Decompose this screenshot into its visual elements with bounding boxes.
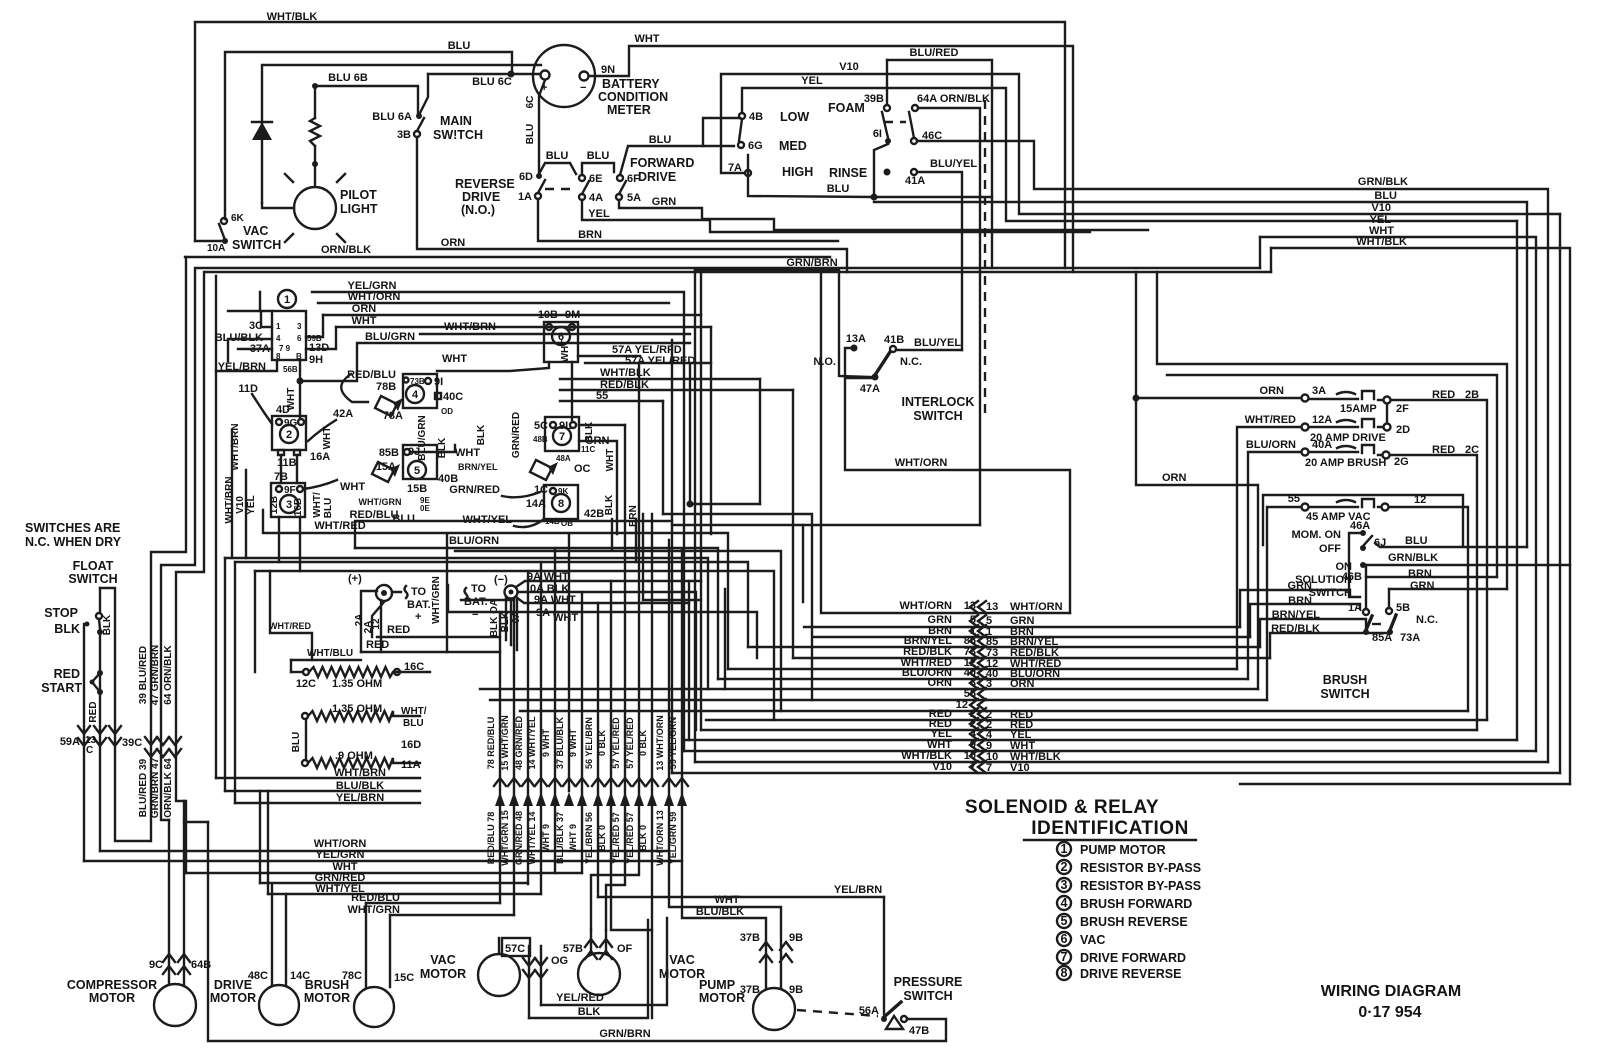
svg-text:13 WHT/ORN: 13 WHT/ORN <box>655 715 665 771</box>
svg-text:5: 5 <box>414 465 420 477</box>
wire WHT down from relay1 <box>299 360 301 419</box>
svg-text:ORN/BLK: ORN/BLK <box>321 244 371 256</box>
svg-text:MOTOR: MOTOR <box>210 991 256 1005</box>
svg-text:OC: OC <box>574 463 591 475</box>
wire BLU 6C into battery + <box>428 73 540 75</box>
svg-text:78B: 78B <box>376 381 396 393</box>
brush switch 1A/85A 5B/73A <box>1363 609 1369 615</box>
svg-text:N.C.: N.C. <box>900 356 922 368</box>
svg-text:16D: 16D <box>401 739 421 751</box>
wire relay7 GRN out <box>579 441 617 534</box>
lower frame line 3 GRN/BRN <box>206 271 1271 273</box>
svg-text:59A: 59A <box>60 736 80 748</box>
svg-text:WHT/GRN 15: WHT/GRN 15 <box>500 810 510 866</box>
svg-text:64 ORN/BLK: 64 ORN/BLK <box>163 644 174 704</box>
svg-text:ORN: ORN <box>1162 472 1187 484</box>
svg-text:13A: 13A <box>846 333 866 345</box>
svg-text:6G: 6G <box>748 140 763 152</box>
svg-text:4: 4 <box>276 334 281 343</box>
svg-text:DRIVE FORWARD: DRIVE FORWARD <box>1080 951 1186 965</box>
svg-text:BLU: BLU <box>827 183 850 195</box>
svg-text:RESISTOR BY-PASS: RESISTOR BY-PASS <box>1080 861 1201 875</box>
svg-text:FORWARD: FORWARD <box>630 156 694 170</box>
wire ORN from 3B <box>417 137 847 272</box>
svg-text:N.C. WHEN DRY: N.C. WHEN DRY <box>25 535 122 549</box>
svg-text:BATTERY: BATTERY <box>602 77 660 91</box>
svg-text:0 BLK: 0 BLK <box>638 730 648 757</box>
wire frame to diode branch <box>262 65 541 203</box>
wire 46C right GRN/BLK <box>917 141 1548 762</box>
wire 37 BLU/BLK <box>568 534 570 791</box>
fuse 20 AMP BRUSH <box>1302 449 1309 456</box>
svg-text:FOAM: FOAM <box>828 101 865 115</box>
svg-text:GRN: GRN <box>1410 580 1435 592</box>
svg-text:BLU: BLU <box>323 498 334 519</box>
svg-text:15AMP: 15AMP <box>1340 403 1377 415</box>
arrows 59A 13C 39C <box>78 726 90 746</box>
svg-text:BLK: BLK <box>578 1006 601 1018</box>
svg-text:BLU/ORN: BLU/ORN <box>449 535 499 547</box>
resistor 1.35 OHM 2 <box>302 713 308 719</box>
svg-text:PUMP MOTOR: PUMP MOTOR <box>1080 843 1166 857</box>
svg-text:7B: 7B <box>274 471 288 483</box>
svg-text:BLU/YEL: BLU/YEL <box>914 337 961 349</box>
svg-text:BLK: BLK <box>437 437 448 458</box>
svg-text:5B: 5B <box>1396 602 1410 614</box>
13A terminal <box>851 345 858 352</box>
wire WHT row <box>684 750 1536 752</box>
wire BLU from vac switch to battery <box>225 52 512 219</box>
svg-text:BRUSH FORWARD: BRUSH FORWARD <box>1080 897 1192 911</box>
svg-text:41B: 41B <box>884 334 904 346</box>
svg-text:2: 2 <box>286 429 292 441</box>
wire vertical bus b <box>671 340 673 773</box>
compressor motor <box>154 984 196 1026</box>
svg-text:PILOT: PILOT <box>340 188 377 202</box>
float switch body <box>100 588 150 841</box>
wire WHT/BRN <box>420 333 690 335</box>
svg-text:BLU: BLU <box>1405 535 1428 547</box>
wire GRN to brush <box>1240 590 1349 627</box>
relay 6 box <box>544 322 578 362</box>
wire 9 WHT a <box>554 549 556 873</box>
wire WHT/BLK top <box>1271 248 1570 784</box>
svg-text:9I: 9I <box>434 376 443 388</box>
wire GRN from 5A <box>619 200 1148 230</box>
svg-text:3A: 3A <box>1312 385 1326 397</box>
svg-text:6C: 6C <box>525 96 536 109</box>
relay 5 box <box>403 445 437 479</box>
wire V10 from 7A <box>721 74 1560 214</box>
svg-text:BLU: BLU <box>587 150 610 162</box>
wire BLK bottom <box>529 920 648 1018</box>
drive motor <box>259 985 299 1025</box>
svg-text:56B: 56B <box>283 365 298 374</box>
wire BLU box bottom <box>748 155 992 197</box>
wire BRN/YEL to brush <box>1260 619 1366 647</box>
wire YEL/RED bottom <box>541 918 667 1005</box>
svg-text:V10: V10 <box>1371 202 1391 214</box>
svg-text:WHT: WHT <box>605 449 616 472</box>
wire BRN 46B <box>1366 576 1497 578</box>
relay 2 box <box>272 416 306 450</box>
svg-text:WHT/YEL 14: WHT/YEL 14 <box>527 812 537 865</box>
svg-text:OFF: OFF <box>1319 543 1341 555</box>
svg-text:46B: 46B <box>1342 571 1362 583</box>
svg-text:(N.O.): (N.O.) <box>461 203 495 217</box>
svg-text:WHT/BLU: WHT/BLU <box>307 648 353 659</box>
svg-text:BLU: BLU <box>291 732 302 753</box>
svg-text:MOTOR: MOTOR <box>420 967 466 981</box>
svg-text:BLU/GRN: BLU/GRN <box>365 331 415 343</box>
wire BLU 6E to 6F top <box>582 163 614 175</box>
svg-text:55: 55 <box>1288 493 1300 505</box>
svg-text:WHT: WHT <box>553 612 578 624</box>
svg-text:YEL: YEL <box>801 75 823 87</box>
svg-text:IDENTIFICATION: IDENTIFICATION <box>1031 818 1189 839</box>
svg-text:(+): (+) <box>348 573 362 585</box>
svg-text:8: 8 <box>558 498 564 510</box>
wire WHT/ORN from 47A <box>845 378 1070 613</box>
svg-text:48A: 48A <box>556 454 571 463</box>
svg-text:WHT/RED: WHT/RED <box>1245 414 1296 426</box>
wire 14C to drive motor <box>285 894 287 985</box>
rinse switch 41A <box>884 169 891 176</box>
svg-text:CONDITION: CONDITION <box>598 90 668 104</box>
wire WHT bus <box>186 872 582 874</box>
svg-text:6: 6 <box>1061 932 1068 946</box>
main switch S1 <box>416 113 422 119</box>
wire WHT/BLK row <box>695 761 1548 763</box>
svg-text:STOP: STOP <box>44 606 78 620</box>
wire YEL/BRN pressure <box>598 896 884 898</box>
svg-text:39C: 39C <box>122 737 142 749</box>
wire vertical bus f <box>700 272 702 730</box>
svg-text:MOM. ON: MOM. ON <box>1292 529 1342 541</box>
svg-text:BRUSH: BRUSH <box>1323 673 1367 687</box>
wire step 650 <box>643 514 701 600</box>
relay 1 box <box>278 290 296 308</box>
svg-text:YEL/BRN 56: YEL/BRN 56 <box>584 812 594 864</box>
svg-text:12: 12 <box>956 699 968 711</box>
svg-text:8: 8 <box>1061 966 1068 980</box>
svg-text:2: 2 <box>1061 860 1068 874</box>
left frame vertical 4 <box>215 276 217 778</box>
wire BLU resistor link <box>305 719 307 760</box>
resistor 12C 1.35 OHM <box>303 669 309 675</box>
svg-text:RESISTOR BY-PASS: RESISTOR BY-PASS <box>1080 879 1201 893</box>
wire 64B to compressor <box>183 801 185 984</box>
wire WHT top <box>1260 237 1536 751</box>
bottom frame GRN/BRN <box>208 822 946 1041</box>
svg-text:8: 8 <box>276 352 281 361</box>
svg-text:57 YEL/RED: 57 YEL/RED <box>611 717 621 769</box>
svg-text:1: 1 <box>284 294 290 306</box>
svg-text:WHT 9: WHT 9 <box>568 824 578 852</box>
svg-text:11D: 11D <box>238 383 258 395</box>
wire row740 step <box>688 581 690 603</box>
svg-text:YEL/RED: YEL/RED <box>556 992 604 1004</box>
svg-text:SWITCH: SWITCH <box>68 572 117 586</box>
svg-text:PUMP: PUMP <box>699 978 735 992</box>
svg-text:BLK: BLK <box>102 614 113 635</box>
wire WHT/GRN vertical <box>446 534 448 652</box>
svg-text:RED: RED <box>88 701 99 722</box>
wire YEL from 4B <box>742 88 1517 221</box>
fuse 45 AMP VAC <box>1302 504 1309 511</box>
reverse drive switches 6D/1A 6E/4A 6F/5A <box>536 173 542 179</box>
wire horizontal h5 <box>225 558 708 689</box>
wire OG arrows <box>529 946 541 1018</box>
svg-text:.9 OHM: .9 OHM <box>335 750 373 762</box>
svg-text:4A: 4A <box>589 192 603 204</box>
svg-text:YEL/BRN: YEL/BRN <box>834 884 882 896</box>
svg-text:9B: 9B <box>789 932 803 944</box>
svg-text:WHT/ORN: WHT/ORN <box>348 291 401 303</box>
svg-text:3: 3 <box>286 499 292 511</box>
wire WHT/ORN row <box>821 272 1070 613</box>
pilot light PL1 <box>294 187 336 229</box>
svg-text:LOW: LOW <box>780 110 809 124</box>
svg-text:3B: 3B <box>397 129 411 141</box>
svg-text:40C: 40C <box>443 391 463 403</box>
svg-text:73B: 73B <box>410 377 425 386</box>
svg-text:BLU 6B: BLU 6B <box>328 72 368 84</box>
svg-text:9C: 9C <box>149 959 163 971</box>
start contacts <box>97 670 103 676</box>
svg-text:12: 12 <box>371 618 382 630</box>
svg-text:BRN: BRN <box>1288 595 1312 607</box>
svg-text:11C: 11C <box>581 445 595 454</box>
wire GRN/BLK solution <box>1366 564 1570 566</box>
svg-text:37B: 37B <box>740 984 760 996</box>
relay 4 armature <box>375 396 397 416</box>
svg-text:WHT/RED: WHT/RED <box>269 621 311 631</box>
wire ORN row <box>480 688 1258 690</box>
svg-text:7: 7 <box>1061 950 1068 964</box>
wire horizontal h1 <box>690 503 760 505</box>
svg-text:WHT/ORN: WHT/ORN <box>1010 601 1063 613</box>
svg-text:2D: 2D <box>1396 424 1410 436</box>
battery - terminal <box>505 586 518 599</box>
svg-text:BAT.: BAT. <box>464 596 488 608</box>
wire vertical 725 <box>724 589 726 689</box>
svg-text:48B: 48B <box>533 435 548 444</box>
svg-text:N.C.: N.C. <box>1416 614 1438 626</box>
svg-text:6E: 6E <box>589 173 602 185</box>
svg-text:0·17 954: 0·17 954 <box>1358 1004 1421 1021</box>
svg-text:MOTOR: MOTOR <box>699 991 745 1005</box>
svg-text:ORN: ORN <box>1010 678 1035 690</box>
wire RED row 2 <box>701 729 1477 731</box>
wire 0 BLK a <box>611 581 652 930</box>
svg-text:ORN: ORN <box>1260 385 1285 397</box>
svg-text:GRN/RED 48: GRN/RED 48 <box>514 811 524 865</box>
svg-text:BRUSH REVERSE: BRUSH REVERSE <box>1080 915 1188 929</box>
wire h12 <box>448 612 757 658</box>
svg-text:39 BLU/RED: 39 BLU/RED <box>138 646 149 704</box>
svg-text:WHT/GRN: WHT/GRN <box>431 576 442 624</box>
wire vertical 803 <box>802 525 804 602</box>
svg-text:GRN/RED: GRN/RED <box>449 484 500 496</box>
svg-text:48C: 48C <box>248 970 268 982</box>
wire V10 row <box>672 772 1560 774</box>
svg-text:37B: 37B <box>740 932 760 944</box>
svg-text:RED/BLU: RED/BLU <box>347 369 396 381</box>
wire YEL from 4A <box>582 200 1090 232</box>
svg-text:−: − <box>580 82 586 94</box>
svg-text:BRN: BRN <box>628 505 639 527</box>
svg-text:9K: 9K <box>558 487 568 496</box>
svg-text:12B: 12B <box>269 496 280 514</box>
fuse box frame inner <box>1167 375 1497 577</box>
wire WHT/RED row <box>728 668 1237 670</box>
svg-text:RED: RED <box>387 624 410 636</box>
wire RED/BLU bus <box>366 902 500 904</box>
svg-text:GRN/BRN: GRN/BRN <box>599 1028 650 1040</box>
svg-text:YEL/RED 57: YEL/RED 57 <box>625 812 635 864</box>
wire 10A to frame <box>195 240 222 242</box>
svg-text:5: 5 <box>1061 914 1068 928</box>
svg-text:59 YEL/GRN: 59 YEL/GRN <box>668 717 678 769</box>
wire relay7 9L out <box>579 424 625 426</box>
svg-text:57 YEL/RED: 57 YEL/RED <box>625 717 635 769</box>
wire horizontal h7 <box>255 571 774 720</box>
wire BRN to brush <box>1250 604 1360 637</box>
svg-text:WHT/BRN: WHT/BRN <box>224 476 235 523</box>
svg-text:1.35 OHM: 1.35 OHM <box>332 703 382 715</box>
svg-text:METER: METER <box>607 103 651 117</box>
57C box <box>502 938 530 956</box>
svg-text:BLK 0: BLK 0 <box>638 825 648 851</box>
wire BLU/RED <box>887 60 992 268</box>
svg-text:BLU: BLU <box>649 134 672 146</box>
svg-text:14C: 14C <box>290 970 310 982</box>
svg-text:WHT/ORN: WHT/ORN <box>895 457 948 469</box>
svg-text:MAIN: MAIN <box>440 114 472 128</box>
wire 64A right <box>918 108 980 525</box>
svg-text:OD: OD <box>441 407 453 416</box>
svg-text:5C: 5C <box>534 420 548 432</box>
svg-text:WHT/ORN 13: WHT/ORN 13 <box>655 810 665 866</box>
wire stair left c <box>254 571 256 672</box>
fuse box frame outer <box>1157 272 1507 589</box>
svg-text:LIGHT: LIGHT <box>340 202 378 216</box>
svg-text:BRN/YEL: BRN/YEL <box>458 462 498 472</box>
svg-text:9H: 9H <box>309 354 323 366</box>
wire BLU/YEL 41A <box>917 172 962 350</box>
svg-text:9G: 9G <box>284 418 298 429</box>
svg-text:1.35 OHM: 1.35 OHM <box>332 678 382 690</box>
svg-text:BRN/YEL: BRN/YEL <box>1272 609 1321 621</box>
svg-text:9 WHT: 9 WHT <box>541 729 551 758</box>
wire 9C to compressor <box>168 820 170 984</box>
svg-text:INTERLOCK: INTERLOCK <box>902 395 975 409</box>
wires 9A/0A from - terminal <box>516 581 648 587</box>
svg-text:WHT: WHT <box>455 447 480 459</box>
svg-text:2G: 2G <box>1394 456 1409 468</box>
svg-text:GRN/RED: GRN/RED <box>511 412 522 458</box>
wire 57 YEL/RED a <box>606 425 625 930</box>
svg-text:7: 7 <box>559 431 565 443</box>
wire WHT/BRN <box>216 777 420 779</box>
interlock switch 47A/41B <box>872 374 879 381</box>
svg-text:BLU/YEL: BLU/YEL <box>930 158 977 170</box>
svg-text:BLU/BLK 37: BLU/BLK 37 <box>555 812 565 864</box>
wire BLU/BLK <box>259 791 261 883</box>
wire 48 GRN/RED <box>527 571 529 884</box>
wire YEL/GRN <box>312 291 682 293</box>
wire row669 step <box>727 612 729 669</box>
wire relay3 drops <box>279 517 300 571</box>
wire BLU top <box>874 202 1527 547</box>
svg-text:7 9: 7 9 <box>279 344 291 353</box>
svg-text:SW!TCH: SW!TCH <box>433 128 483 142</box>
vac motor 1 <box>478 954 520 996</box>
wire WHT <box>336 326 711 328</box>
svg-text:4D: 4D <box>276 404 290 416</box>
svg-text:64A ORN/BLK: 64A ORN/BLK <box>917 93 990 105</box>
svg-text:78C: 78C <box>342 970 362 982</box>
svg-text:RED: RED <box>54 667 80 681</box>
svg-text:13: 13 <box>986 601 998 613</box>
svg-text:START: START <box>41 681 82 695</box>
svg-text:MOTOR: MOTOR <box>89 991 135 1005</box>
svg-text:WHT/GRN: WHT/GRN <box>359 497 402 507</box>
svg-text:15B: 15B <box>407 483 427 495</box>
svg-text:OG: OG <box>551 955 568 967</box>
svg-text:GRN/BLK: GRN/BLK <box>1358 176 1408 188</box>
svg-text:HIGH: HIGH <box>782 165 813 179</box>
relay 7 box <box>545 417 579 451</box>
wire 78 RED/BLU <box>499 612 501 903</box>
svg-text:SOLENOID & RELAY: SOLENOID & RELAY <box>965 797 1159 818</box>
svg-text:1: 1 <box>1061 842 1068 856</box>
svg-text:10A: 10A <box>207 243 225 254</box>
svg-text:0E: 0E <box>420 504 430 513</box>
wire 9A WHT h11 <box>642 603 689 740</box>
svg-text:1A: 1A <box>518 191 532 203</box>
wire stair left b <box>234 562 236 803</box>
svg-text:BLU/RED: BLU/RED <box>910 47 959 59</box>
svg-text:TO: TO <box>471 583 487 595</box>
svg-text:BLK OA: BLK OA <box>489 599 500 637</box>
wire BLU 6J <box>1375 543 1527 547</box>
svg-text:WHT/GRN: WHT/GRN <box>347 904 400 916</box>
svg-text:RED/BLK: RED/BLK <box>1271 623 1320 635</box>
svg-text:BLU: BLU <box>403 718 424 729</box>
svg-text:COMPRESSOR: COMPRESSOR <box>67 978 157 992</box>
vac switch 6K/10A <box>221 218 227 224</box>
svg-text:3: 3 <box>1061 878 1068 892</box>
svg-text:37 BLU/BLK: 37 BLU/BLK <box>555 717 565 770</box>
svg-text:WHT/: WHT/ <box>312 492 323 518</box>
svg-text:OF: OF <box>617 943 633 955</box>
svg-text:VAC: VAC <box>1080 933 1105 947</box>
svg-text:SWITCH: SWITCH <box>903 989 952 1003</box>
wire RED/BLK row <box>793 657 1270 659</box>
svg-text:56 YEL/BRN: 56 YEL/BRN <box>584 717 594 769</box>
svg-text:BLU/BLK: BLU/BLK <box>336 780 384 792</box>
svg-text:4B: 4B <box>749 111 763 123</box>
svg-text:SWITCH: SWITCH <box>232 238 281 252</box>
svg-text:47 GRN/BRN: 47 GRN/BRN <box>150 645 161 706</box>
svg-text:1: 1 <box>276 322 281 331</box>
wire RED/BLU h <box>355 521 672 548</box>
wire RED/BLK to brush <box>1270 633 1386 658</box>
svg-text:WHT/BLK: WHT/BLK <box>267 11 318 23</box>
speed selector LOW/MED/HIGH <box>739 113 745 119</box>
